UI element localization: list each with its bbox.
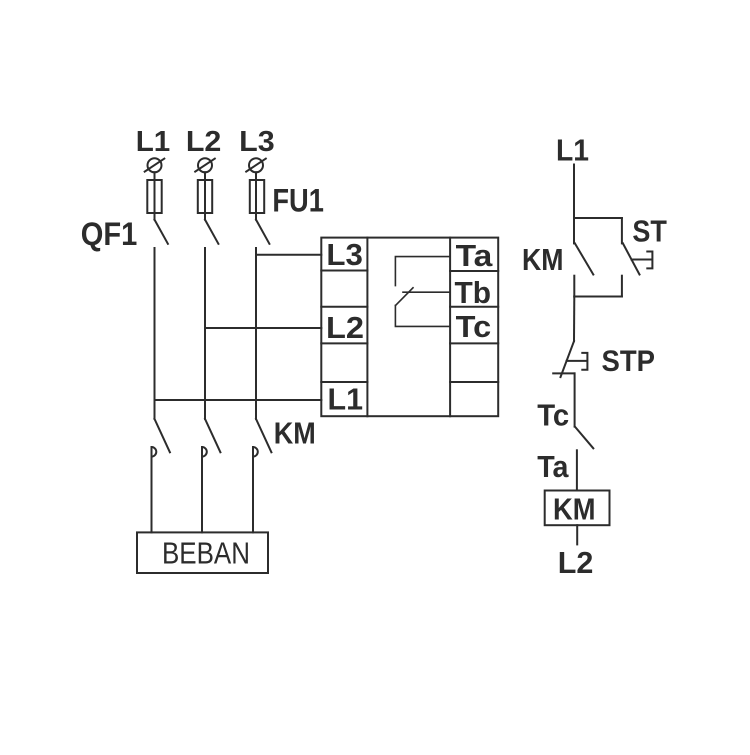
pushbutton ST actuator bbox=[632, 252, 653, 269]
svg-text:L2: L2 bbox=[326, 310, 364, 345]
wire L3 to timer terminal L3 bbox=[256, 254, 321, 256]
breaker QF1 pole 2 (blade) bbox=[205, 220, 218, 244]
pushbutton STP actuator bbox=[567, 353, 588, 370]
svg-text:Tc: Tc bbox=[537, 397, 569, 432]
wire Ta to coil bbox=[576, 450, 578, 490]
wire KM branch lower bbox=[573, 276, 575, 297]
timer right strip cell line 2 bbox=[450, 306, 498, 308]
timer U1 left terminal strip divider bbox=[366, 238, 368, 417]
timer right strip cell line 4 bbox=[450, 381, 498, 383]
wire ST branch upper bbox=[621, 218, 623, 243]
wire coil to L2 bbox=[576, 525, 578, 544]
wire L1 to timer terminal L1 bbox=[155, 399, 322, 401]
wire branch top horizontal bbox=[574, 217, 622, 219]
svg-text:L1: L1 bbox=[136, 126, 171, 158]
pushbutton STP (NC blade) bbox=[561, 341, 575, 377]
svg-text:ST: ST bbox=[632, 214, 667, 249]
timer U1 right terminal strip divider bbox=[449, 238, 451, 417]
svg-text:Tc: Tc bbox=[456, 309, 492, 344]
wire contact 1 to load bbox=[151, 447, 153, 532]
timer right strip cell line 3 bbox=[450, 342, 498, 344]
svg-text:L1: L1 bbox=[556, 133, 589, 168]
svg-text:Ta: Ta bbox=[537, 449, 569, 484]
svg-text:BEBAN: BEBAN bbox=[162, 536, 250, 570]
timer internal changeover blade bbox=[396, 288, 413, 306]
wire phase L1 vertical run bbox=[154, 248, 156, 419]
svg-text:FU1: FU1 bbox=[272, 182, 324, 218]
timer U1 outer box bbox=[321, 238, 498, 417]
svg-text:L2: L2 bbox=[558, 545, 594, 580]
svg-text:L3: L3 bbox=[326, 237, 363, 272]
svg-text:Tb: Tb bbox=[455, 275, 492, 310]
timer internal wire to Tb bbox=[403, 291, 450, 293]
timer left strip cell line 3 bbox=[321, 342, 367, 344]
svg-text:STP: STP bbox=[602, 345, 656, 378]
wire L1 down to branch bbox=[573, 165, 575, 219]
timer right strip cell line 1 bbox=[450, 270, 498, 272]
wire L2 to timer terminal L2 bbox=[205, 327, 321, 329]
svg-text:QF1: QF1 bbox=[81, 216, 138, 252]
contactor KM contact 1 fixed terminal (hook) bbox=[152, 447, 157, 457]
wire contact 2 to load bbox=[201, 447, 203, 532]
timer left strip cell line 1 bbox=[321, 270, 367, 272]
wire L3 terminal to fuse bbox=[255, 172, 257, 219]
contactor KM main contact 3 (blade) bbox=[256, 419, 271, 452]
timer left strip cell line 2 bbox=[321, 306, 367, 308]
svg-text:L1: L1 bbox=[328, 382, 364, 417]
svg-text:KM: KM bbox=[274, 416, 316, 451]
terminal X1 (circle with slash, phase L1) bbox=[145, 158, 165, 172]
load box BEBAN bbox=[137, 532, 268, 573]
wire branch bottom horizontal bbox=[574, 296, 622, 298]
wire STP to Tc contact bbox=[574, 373, 576, 426]
contactor KM contact 3 fixed terminal (hook) bbox=[253, 447, 258, 457]
wire branch to STP bbox=[573, 297, 575, 342]
svg-text:Ta: Ta bbox=[456, 238, 494, 273]
wire contact 3 to load bbox=[252, 447, 254, 532]
svg-text:L2: L2 bbox=[186, 126, 222, 158]
timer left strip cell line 4 bbox=[321, 381, 367, 383]
pushbutton STP fixed contact bar bbox=[553, 372, 574, 374]
svg-text:L3: L3 bbox=[239, 126, 275, 158]
timer internal wire to Tc bbox=[395, 305, 450, 326]
svg-text:KM: KM bbox=[522, 242, 564, 277]
wire KM branch upper bbox=[573, 218, 575, 243]
breaker QF1 pole 3 (blade) bbox=[256, 220, 269, 244]
wire ST branch lower bbox=[621, 276, 623, 297]
contactor KM main contact 1 (blade) bbox=[155, 419, 170, 452]
fuse FU1-a (phase L1) bbox=[147, 180, 161, 213]
coil KM box bbox=[545, 491, 610, 526]
contactor KM main contact 2 (blade) bbox=[205, 419, 220, 452]
fuse FU1-c (phase L3) bbox=[250, 180, 264, 213]
wire L1 terminal to fuse bbox=[154, 172, 156, 219]
wire L2 terminal to fuse bbox=[204, 172, 206, 219]
terminal X3 (circle with slash, phase L3) bbox=[246, 158, 266, 172]
svg-text:KM: KM bbox=[553, 491, 596, 526]
wire phase L2 vertical run bbox=[204, 248, 206, 419]
contact KM auxiliary (blade) bbox=[575, 243, 593, 274]
contactor KM contact 2 fixed terminal (hook) bbox=[202, 447, 207, 457]
fuse FU1-b (phase L2) bbox=[198, 180, 212, 213]
contact Tc timer (blade) bbox=[575, 427, 593, 449]
timer internal wire to Ta bbox=[395, 257, 450, 286]
breaker QF1 pole 1 (blade) bbox=[155, 220, 168, 244]
terminal X2 (circle with slash, phase L2) bbox=[195, 158, 215, 172]
wire phase L3 vertical run bbox=[255, 248, 257, 419]
pushbutton ST (blade) bbox=[623, 243, 640, 274]
